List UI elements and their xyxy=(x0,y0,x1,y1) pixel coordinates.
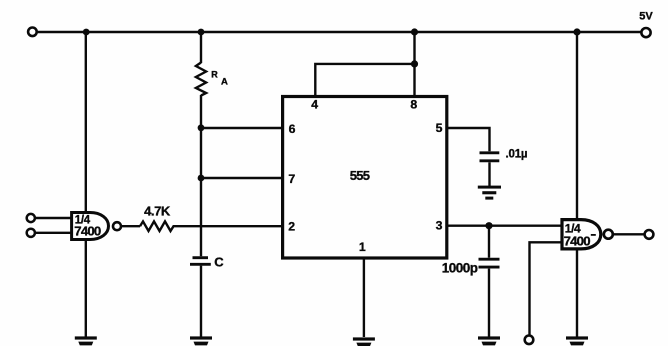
svg-text:7: 7 xyxy=(288,172,295,186)
svg-text:1000p: 1000p xyxy=(442,260,478,275)
svg-text:.01µ: .01µ xyxy=(506,148,528,160)
svg-text:4.7K: 4.7K xyxy=(144,204,171,219)
svg-text:5: 5 xyxy=(436,121,443,135)
svg-text:C: C xyxy=(214,254,224,269)
svg-text:5V: 5V xyxy=(639,11,653,23)
svg-text:1: 1 xyxy=(359,240,366,254)
svg-text:6: 6 xyxy=(289,122,296,136)
svg-text:7400: 7400 xyxy=(74,223,101,238)
svg-text:2: 2 xyxy=(288,219,295,233)
svg-text:7400: 7400 xyxy=(564,233,591,248)
svg-text:A: A xyxy=(221,76,228,87)
svg-text:4: 4 xyxy=(311,97,318,111)
svg-text:R: R xyxy=(211,69,218,79)
svg-text:555: 555 xyxy=(350,168,370,183)
svg-text:3: 3 xyxy=(436,218,443,232)
svg-text:8: 8 xyxy=(410,98,417,112)
